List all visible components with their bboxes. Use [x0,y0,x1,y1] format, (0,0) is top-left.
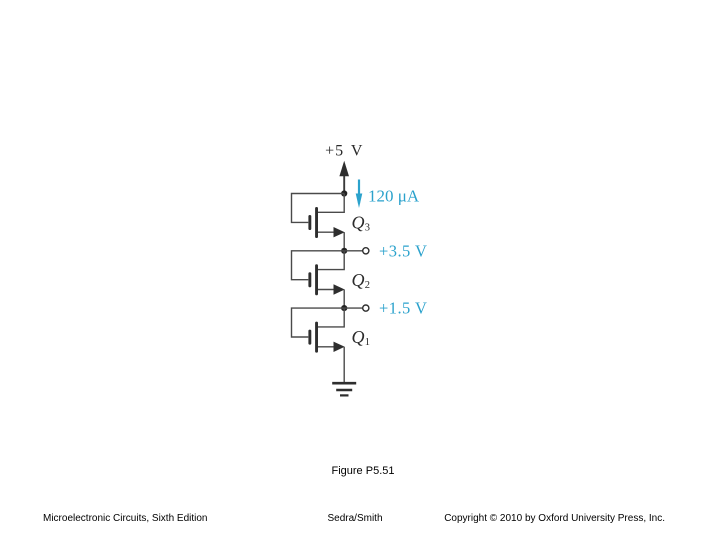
svg-text:1: 1 [365,337,370,348]
gate bar Q2 [308,272,311,287]
svg-text:Q: Q [352,213,365,233]
svg-text:+1.5 V: +1.5 V [379,299,427,318]
caption Figure P5.51 [332,465,395,477]
svg-text:Q: Q [352,270,365,290]
svg-text:+5 V: +5 V [325,143,363,160]
footer right [444,513,665,524]
source wire Q2 [318,289,335,291]
wire gate-drain loop Q3 [292,194,345,223]
gate bar Q3 [308,215,311,230]
channel bar Q3 [315,207,318,238]
svg-text:+3.5 V: +3.5 V [379,242,427,261]
transistor Q3 [292,194,371,251]
svg-text:2: 2 [365,280,370,291]
wire source Q1 to ground [343,347,345,382]
current arrow 120 uA [358,180,360,204]
svg-text:Q: Q [352,327,365,347]
wire to terminal [344,250,362,252]
transistor Q1 [292,308,371,382]
channel bar Q1 [315,322,318,353]
wire source Q2 to node [343,290,345,309]
source arrow Q3 [334,227,345,237]
channel bar Q2 [315,264,318,295]
wire to terminal [344,307,362,309]
node +3.5 V [341,248,347,254]
footer center [328,513,383,524]
node +1.5 V [341,305,347,311]
footer left [43,513,208,524]
node A (drain of Q3) [341,190,347,196]
ground [332,383,356,395]
svg-text:3: 3 [365,223,370,234]
transistor Q2 [292,251,371,308]
drain wire Q1 [318,308,344,327]
terminal circle [363,305,369,311]
wire gate-drain loop Q1 [292,308,345,337]
svg-text:120 μA: 120 μA [368,187,420,206]
source wire Q1 [318,346,335,348]
terminal circle [363,248,369,254]
source arrow Q2 [334,284,345,294]
source arrow Q1 [334,342,345,352]
drain wire Q3 [318,194,344,213]
supply arrow [343,170,345,194]
drain wire Q2 [318,251,344,270]
wire gate-drain loop Q2 [292,251,345,280]
source wire Q3 [318,231,335,233]
gate bar Q1 [308,330,311,345]
wire source Q3 to node [343,232,345,251]
